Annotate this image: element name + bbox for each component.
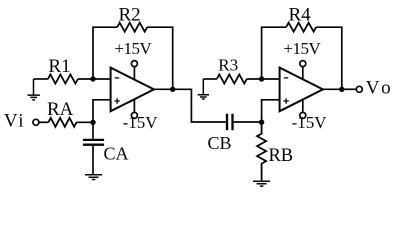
capacitor CB <box>227 114 233 131</box>
svg-text:-15V: -15V <box>292 113 328 132</box>
ground (CA) <box>85 175 102 180</box>
wire R1 to U1 inverting input <box>78 78 111 80</box>
ground (R3) <box>198 79 209 99</box>
wire node E up to R4 <box>262 27 287 79</box>
wire node F to Vo terminal <box>342 88 357 90</box>
wire ground to R3 <box>203 78 217 80</box>
svg-text:R1: R1 <box>48 56 70 77</box>
resistor RA <box>48 118 76 127</box>
wire R3 to U2 inverting input <box>247 78 280 80</box>
svg-text:R2: R2 <box>119 5 141 26</box>
ground (R1) <box>28 79 40 100</box>
U1 inverting input marker <box>115 77 119 79</box>
wire R2 to node C <box>147 27 173 89</box>
wire node B up to R2 <box>93 27 117 79</box>
terminal Vo <box>356 86 362 92</box>
svg-text:CA: CA <box>103 144 128 164</box>
wire Vi terminal to RA <box>39 121 48 123</box>
node A junction (U1 non-inverting input net) <box>90 120 95 125</box>
node D junction (U2 non-inverting input net) <box>259 120 264 125</box>
svg-text:Vi: Vi <box>4 111 25 132</box>
wire ground to R1 <box>34 78 48 80</box>
wire node A to U1 + input <box>93 100 111 123</box>
U1 positive supply pin <box>133 67 135 80</box>
wire R4 to node F <box>316 27 342 89</box>
ground (RB) <box>253 181 270 186</box>
resistor RB <box>257 122 266 180</box>
wire CB to node D <box>234 121 262 123</box>
U2 negative supply pin <box>302 99 304 112</box>
wire node C to CB <box>173 89 226 122</box>
capacitor CA top lead <box>92 122 94 139</box>
node E junction (U2 inverting input net) <box>259 76 264 81</box>
U2 inverting input marker <box>284 77 288 79</box>
resistor R1 <box>48 75 78 84</box>
resistor R2 <box>117 23 147 32</box>
capacitor CA bottom lead <box>92 146 94 175</box>
node C junction (U1 output) <box>170 87 175 92</box>
terminal Vi <box>33 119 39 125</box>
resistor R3 <box>217 75 247 84</box>
op-amp U1 <box>111 68 154 112</box>
U2 positive supply pin <box>302 67 304 80</box>
resistor R4 <box>286 23 316 32</box>
svg-text:+15V: +15V <box>114 39 152 58</box>
wire U2 output <box>323 88 342 90</box>
op-amp U2 <box>280 68 323 112</box>
svg-text:Vo: Vo <box>366 78 395 99</box>
svg-text:RB: RB <box>268 146 293 166</box>
wire U1 output <box>154 88 173 90</box>
svg-text:+15V: +15V <box>283 39 321 58</box>
svg-text:R3: R3 <box>218 56 238 75</box>
svg-text:R4: R4 <box>289 4 312 25</box>
node B junction (U1 inverting input net) <box>90 76 95 81</box>
svg-text:CB: CB <box>207 133 231 153</box>
node F junction (U2 output) <box>339 87 344 92</box>
capacitor CA <box>83 140 104 145</box>
U2 non-inverting input marker <box>283 98 288 103</box>
U1 non-inverting input marker <box>114 98 119 103</box>
wire RA to node A <box>76 121 93 123</box>
svg-text:-15V: -15V <box>123 113 159 132</box>
svg-text:RA: RA <box>47 99 74 120</box>
U1 negative supply pin <box>133 99 135 112</box>
wire node D to U2 + input <box>262 100 280 122</box>
